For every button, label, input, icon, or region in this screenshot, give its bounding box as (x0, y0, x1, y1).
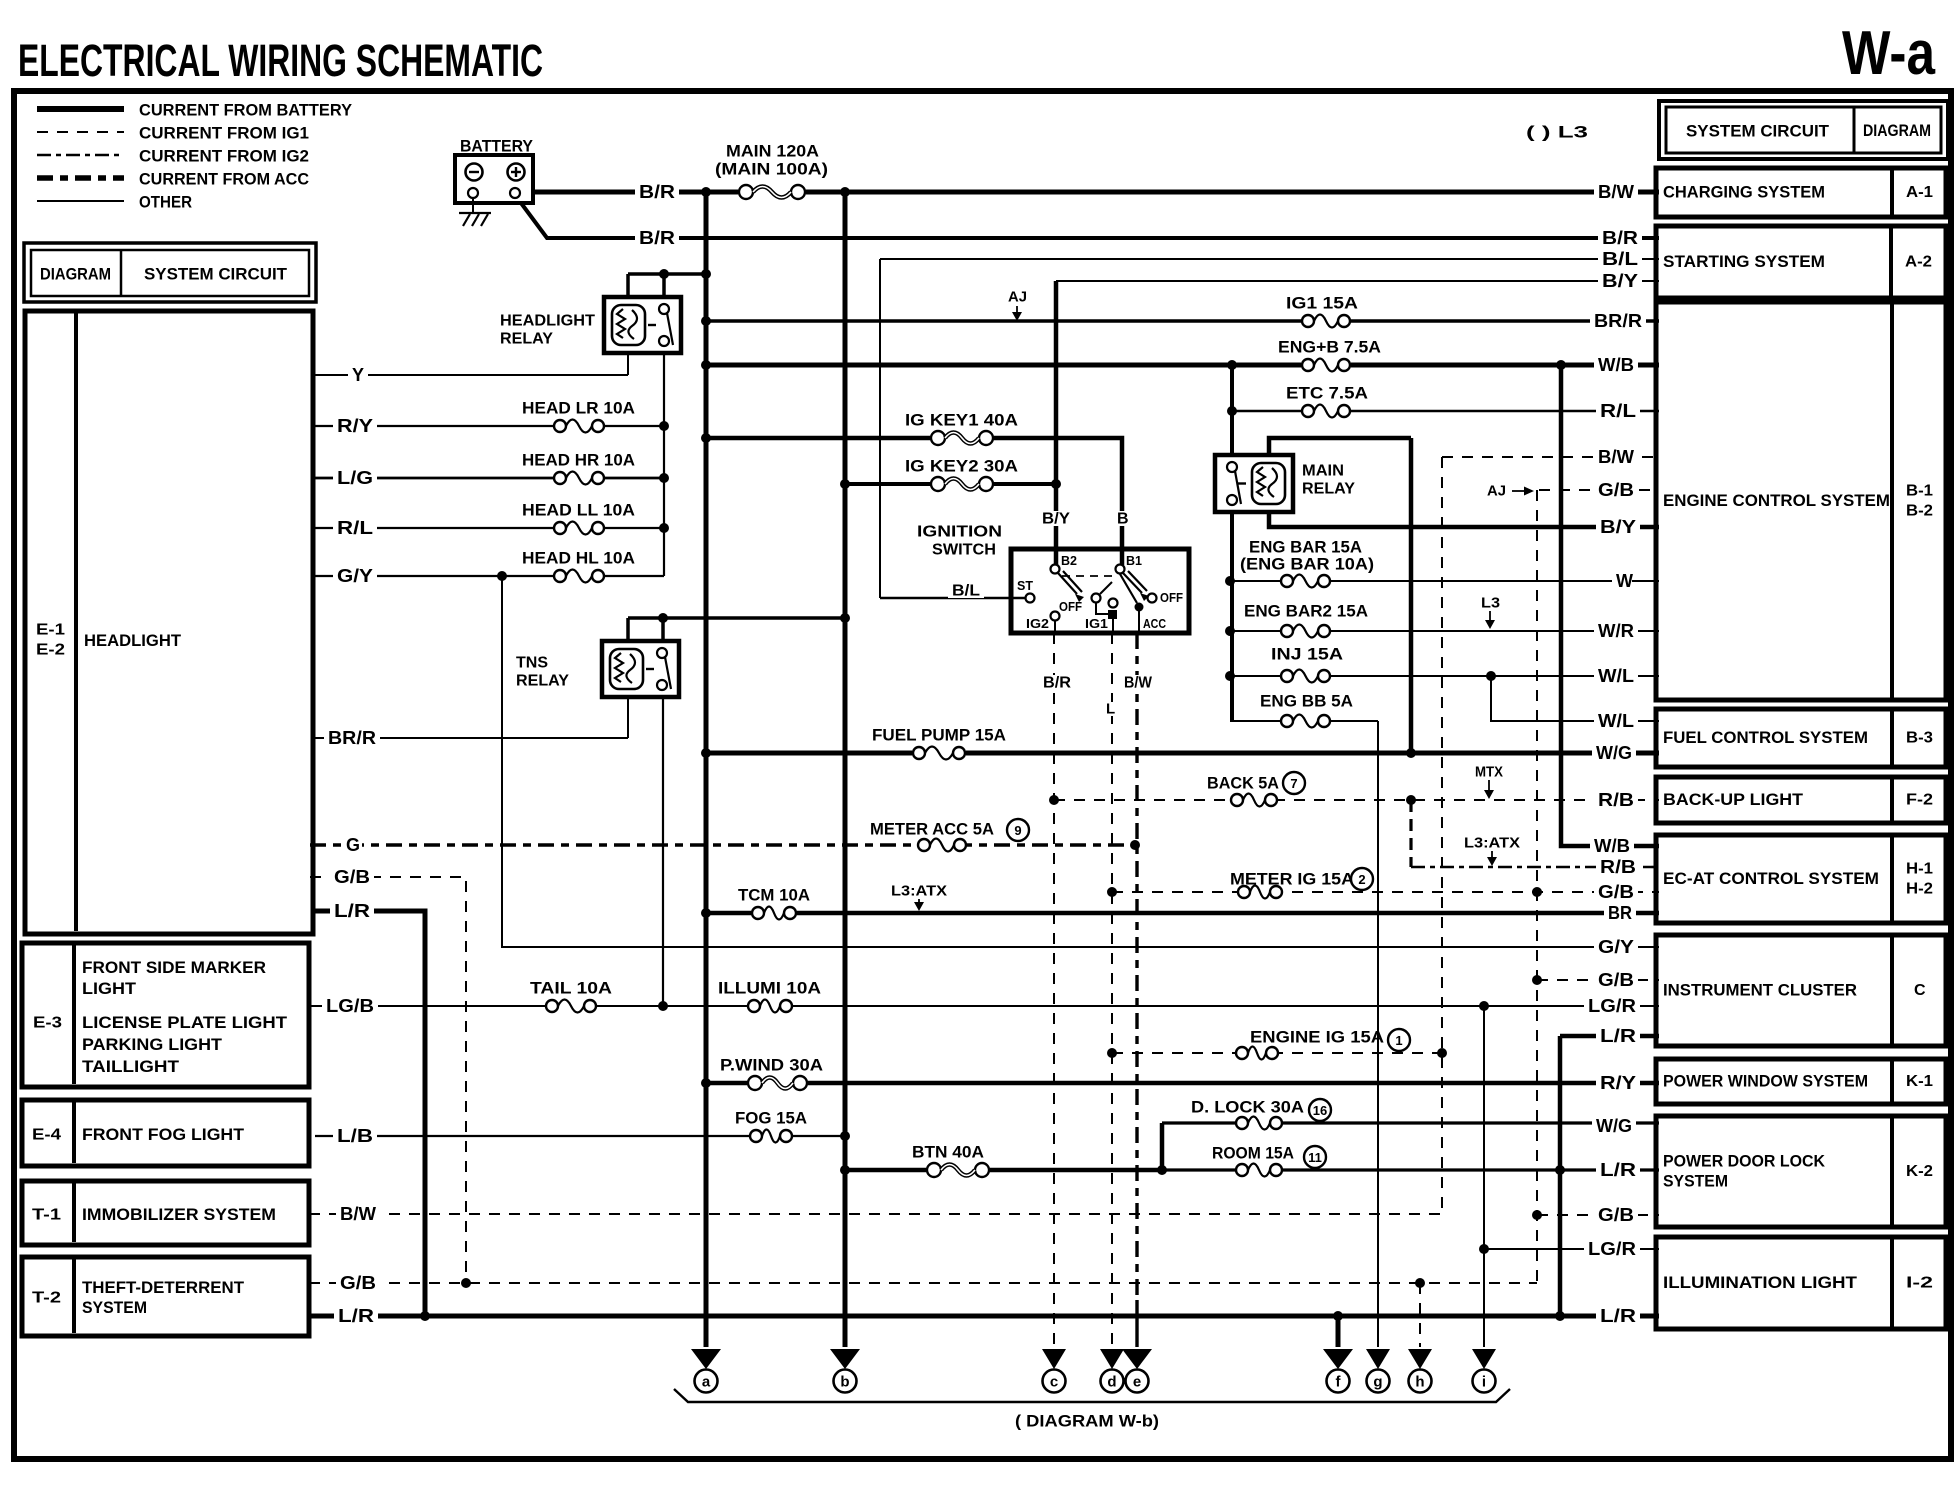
svg-text:B/R: B/R (1043, 675, 1071, 692)
component box T-2 THEFT-DETERRENT SYSTEM (22, 1257, 309, 1336)
wire L/R thick to instrument cluster from L/R bus (1560, 1034, 1659, 1039)
fuse HEAD HR 10A (553, 468, 605, 488)
svg-text:E-3: E-3 (33, 1015, 62, 1032)
svg-text:HEADLIGHT: HEADLIGHT (84, 632, 181, 650)
svg-text:IG1 15A: IG1 15A (1286, 294, 1358, 313)
fuse P.WIND 30A (747, 1072, 808, 1094)
svg-text:1: 1 (1395, 1033, 1402, 1048)
svg-text:a: a (702, 1374, 711, 1391)
wire B/L into ST terminal (880, 597, 1026, 600)
wire W/G via D.LOCK 30A to power door lock (1162, 1121, 1659, 1124)
svg-text:B-2: B-2 (1906, 503, 1933, 520)
system box BACK-UP LIGHT F-2 (1656, 777, 1946, 823)
system box EC-AT CONTROL SYSTEM H-1 H-2 (1656, 835, 1946, 923)
svg-text:L/R: L/R (338, 1306, 374, 1326)
wire vertical B/L drop to ST terminal (879, 259, 881, 598)
svg-text:HEAD HR 10A: HEAD HR 10A (522, 451, 635, 470)
svg-text:AJ: AJ (1487, 483, 1506, 500)
fuse ENG+B 7.5A (1301, 355, 1351, 375)
wire TNS relay switch riser (661, 618, 665, 643)
node R/B branch at main relay vertical (1406, 795, 1416, 805)
svg-text:IGNITION: IGNITION (917, 524, 1002, 541)
wire W/G fuel pump line to fuel control system (706, 751, 1659, 756)
node i-line tap at illumination feed (1479, 1001, 1489, 1011)
connector h to diagram W-b (1408, 1349, 1432, 1369)
fuse HEAD HL 10A (553, 566, 605, 586)
node L/R joins bottom L/R line (420, 1311, 430, 1321)
svg-text:SYSTEM CIRCUIT: SYSTEM CIRCUIT (144, 265, 288, 284)
node a-bus tap IG1 line (701, 316, 711, 326)
svg-text:ILLUMI 10A: ILLUMI 10A (718, 979, 821, 998)
node TNS switch output joins TAIL line (658, 1001, 668, 1011)
svg-text:B/W: B/W (1124, 675, 1153, 692)
wire R/B dashed via BACK 5A to back-up light (1054, 799, 1659, 801)
svg-text:BATTERY: BATTERY (460, 137, 534, 156)
wire headlight relay feed from a-bus (628, 272, 706, 276)
numbered circle 9 for METER ACC (1007, 819, 1029, 841)
svg-text:W/B: W/B (1598, 355, 1634, 375)
svg-text:ENG+B 7.5A: ENG+B 7.5A (1278, 338, 1381, 357)
node a-bus tap ENG+B line (701, 360, 711, 370)
wire W via ENG BAR 15A to engine control (1230, 580, 1659, 582)
connector c to diagram W-b (1042, 1349, 1066, 1369)
svg-text:TAILLIGHT: TAILLIGHT (82, 1058, 179, 1076)
svg-text:H-2: H-2 (1906, 881, 1933, 898)
numbered circle 2 for METER IG (1351, 868, 1373, 890)
wire TNS relay coil riser (626, 618, 630, 643)
wire G/B dashed stub power door lock (1537, 1214, 1659, 1216)
svg-text:B: B (1117, 511, 1129, 528)
wire Y headlight relay coil to headlight (627, 353, 629, 375)
svg-text:B/R: B/R (1602, 228, 1638, 248)
fuse TAIL 10A (545, 996, 597, 1016)
svg-text:L/R: L/R (1600, 1160, 1636, 1180)
wire G/B dashed instrument cluster stub (1537, 979, 1659, 981)
node b-bus tap FOG (840, 1131, 850, 1141)
svg-text:L/G: L/G (337, 468, 373, 488)
fuse ETC 7.5A (1301, 401, 1351, 421)
fuse ENG BAR2 15A (1280, 621, 1331, 641)
fuse IG1 15A (1301, 311, 1351, 331)
svg-text:CHARGING SYSTEM: CHARGING SYSTEM (1663, 184, 1825, 202)
svg-text:2: 2 (1358, 872, 1365, 887)
svg-text:K-2: K-2 (1906, 1163, 1933, 1180)
node main relay feed tap (1227, 360, 1237, 370)
wire B/R battery to MAIN fuse to B/W charging (net BATT) (533, 190, 1659, 195)
svg-text:A-1: A-1 (1906, 184, 1933, 201)
system box POWER WINDOW SYSTEM K-1 (1656, 1059, 1946, 1104)
component box E-3 front side marker / license / parking / taillight (22, 943, 309, 1087)
svg-text:G/B: G/B (340, 1273, 376, 1293)
wire G dash-dot headlight to METER ACC 5A (ACC net) (310, 843, 1135, 846)
wire vertical bus b (MAIN fused) (843, 192, 848, 1347)
svg-text:BR/R: BR/R (328, 728, 376, 748)
svg-text:ENG BAR2 15A: ENG BAR2 15A (1244, 602, 1368, 621)
fuse IG KEY2 30A (930, 473, 994, 495)
svg-text:E-1: E-1 (36, 622, 65, 639)
svg-text:L/R: L/R (1600, 1306, 1636, 1326)
svg-text:CURRENT FROM BATTERY: CURRENT FROM BATTERY (139, 101, 353, 120)
svg-text:ENGINE IG 15A: ENGINE IG 15A (1250, 1028, 1384, 1047)
wire W/B vertical from ENG+B to EC-AT (1561, 365, 1659, 846)
wire g thin vertical down to connector g (1377, 721, 1379, 1347)
node head LR output (659, 421, 669, 431)
svg-text:W/R: W/R (1598, 621, 1634, 641)
svg-text:IG KEY2 30A: IG KEY2 30A (905, 457, 1018, 476)
svg-text:B/W: B/W (1598, 447, 1634, 467)
svg-text:Y: Y (352, 365, 364, 385)
svg-text:W: W (1616, 571, 1633, 591)
wire B/W dashed immobilizer to engine control riser (309, 1213, 1440, 1215)
svg-text:R/L: R/L (337, 518, 373, 538)
wire BR via TCM 10A to EC-AT (706, 911, 1659, 916)
svg-text:BACK 5A: BACK 5A (1207, 774, 1279, 793)
node head LL output (659, 523, 669, 533)
svg-text:LG/R: LG/R (1588, 1239, 1636, 1259)
svg-text:B2: B2 (1061, 554, 1077, 568)
svg-text:R/L: R/L (1600, 401, 1636, 421)
svg-text:L/B: L/B (337, 1126, 373, 1146)
svg-text:G/B: G/B (334, 867, 370, 887)
wire L/R thick theft-deterrent bottom line (309, 1314, 1659, 1319)
system box POWER DOOR LOCK SYSTEM K-2 (1656, 1116, 1946, 1227)
wire BR/R headlight to TNS relay coil (315, 737, 628, 739)
svg-text:W/B: W/B (1594, 836, 1630, 856)
svg-text:G/B: G/B (1598, 1205, 1634, 1225)
svg-text:OTHER: OTHER (139, 193, 192, 212)
wire headlight relay switch output bus (663, 353, 665, 576)
wire TNS relay switch output down to TAIL line (662, 697, 664, 1006)
svg-text:( ) L3: ( ) L3 (1526, 123, 1588, 142)
terminal B1 (1116, 565, 1125, 574)
node a-bus tap P.WIND (701, 1078, 711, 1088)
svg-text:L3: L3 (1481, 595, 1500, 612)
svg-text:POWER DOOR LOCK: POWER DOOR LOCK (1663, 1153, 1825, 1171)
svg-text:(MAIN 100A): (MAIN 100A) (715, 160, 828, 179)
svg-text:11: 11 (1308, 1150, 1322, 1165)
fuse TCM 10A (751, 903, 797, 923)
legend line: current from ACC (37, 175, 124, 181)
svg-text:SYSTEM: SYSTEM (1663, 1173, 1728, 1191)
svg-text:LICENSE PLATE LIGHT: LICENSE PLATE LIGHT (82, 1014, 287, 1032)
node a-bus tap headlight relay (701, 269, 711, 279)
svg-text:BACK-UP LIGHT: BACK-UP LIGHT (1663, 791, 1803, 809)
wire G/B bus dashed vertical (1536, 490, 1538, 1283)
node L/R bus at ROOM output (1555, 1165, 1565, 1175)
svg-text:B/R: B/R (639, 182, 675, 202)
wire headlight relay coil riser (626, 274, 630, 299)
svg-text:THEFT-DETERRENT: THEFT-DETERRENT (82, 1279, 244, 1297)
wire B/W dashed vertical riser (1441, 457, 1443, 1214)
svg-text:B/Y: B/Y (1600, 517, 1636, 537)
svg-text:B/L: B/L (1602, 249, 1638, 269)
node ENG BAR2 tap (1225, 626, 1235, 636)
node BTN split to ROOM (1157, 1165, 1167, 1175)
svg-text:METER IG 15A: METER IG 15A (1230, 870, 1354, 889)
node ENGINE IG tap on d (1107, 1048, 1117, 1058)
terminal ST (1026, 594, 1035, 603)
svg-text:RELAY: RELAY (500, 331, 553, 348)
svg-text:B/L: B/L (952, 583, 980, 600)
fuse IG KEY1 40A (930, 427, 994, 449)
svg-text:B1: B1 (1126, 554, 1142, 568)
svg-text:B/Y: B/Y (1602, 271, 1638, 291)
wire L/B via FOG 15A from front fog light (315, 1135, 845, 1137)
terminal ACC (1135, 603, 1144, 612)
svg-text:W/L: W/L (1598, 711, 1634, 731)
node TNS switch riser join (658, 613, 668, 623)
wire main relay drop from ENG+B (1230, 365, 1234, 457)
node G/B bus tap door lock (1532, 1210, 1542, 1220)
svg-text:CURRENT FROM IG2: CURRENT FROM IG2 (139, 147, 309, 166)
svg-text:B/W: B/W (1598, 182, 1634, 202)
node b-bus tap BTN (840, 1165, 850, 1175)
switch arm from B2 (1058, 573, 1077, 594)
fuse METER ACC 5A (917, 835, 967, 855)
wire G/Y headlight via HEAD HL 10A fuse (315, 575, 664, 577)
wire LG/R illumination light from i-line (1484, 1248, 1659, 1250)
wire ETC 7.5A feed to R/L engine control (1232, 410, 1659, 413)
node a-bus tap fuel pump (701, 748, 711, 758)
svg-text:B-3: B-3 (1906, 730, 1933, 747)
node ETC tap on main relay drop (1227, 406, 1237, 416)
svg-text:R/B: R/B (1600, 857, 1636, 877)
wire d dashed L from IG1 down to connector d (1111, 633, 1113, 1347)
wire IG1 15A feed to BR/R engine control (706, 319, 1659, 323)
svg-text:LG/B: LG/B (326, 996, 374, 1016)
node G/Y branch to instrument cluster (497, 571, 507, 581)
wire L/R via ROOM 15A to power door lock (1162, 1168, 1659, 1171)
fuse D.LOCK 30A (1235, 1113, 1283, 1133)
svg-text:7: 7 (1290, 776, 1297, 791)
svg-text:SYSTEM: SYSTEM (82, 1299, 147, 1317)
svg-text:IG1: IG1 (1085, 617, 1108, 631)
svg-text:PARKING LIGHT: PARKING LIGHT (82, 1036, 222, 1054)
fuse ROOM 15A (1235, 1160, 1283, 1180)
svg-text:OFF: OFF (1160, 591, 1183, 605)
wire ENG BB 5A to connector g (1230, 720, 1378, 722)
fuse MAIN 120A (MAIN 100A) (738, 181, 806, 203)
mechanical link dashed between B2 and B1 (1062, 575, 1113, 577)
node battery bus a tap (701, 187, 711, 197)
wire L/R thick headlight down left riser (315, 911, 425, 1316)
system box FUEL CONTROL SYSTEM B-3 (1656, 709, 1946, 767)
svg-text:ETC 7.5A: ETC 7.5A (1286, 384, 1368, 403)
svg-text:ENG BB 5A: ENG BB 5A (1260, 692, 1353, 711)
svg-text:HEAD HL 10A: HEAD HL 10A (522, 549, 635, 568)
svg-text:TAIL 10A: TAIL 10A (530, 979, 612, 998)
svg-text:e: e (1133, 1374, 1141, 1391)
switch arm from B1 to ACC (1120, 574, 1137, 603)
svg-text:SWITCH: SWITCH (932, 542, 996, 559)
svg-text:(ENG BAR 10A): (ENG BAR 10A) (1240, 555, 1374, 574)
node i-line tap at LG/R illumination (1479, 1244, 1489, 1254)
svg-text:h: h (1415, 1374, 1424, 1391)
svg-text:BR: BR (1608, 903, 1632, 923)
terminal OFF right (1148, 594, 1157, 603)
svg-text:i: i (1482, 1374, 1486, 1391)
node a-bus tap TCM (701, 908, 711, 918)
node ENGINE IG joins B/W vertical (1437, 1048, 1447, 1058)
wire B/W dashed into engine control (1442, 456, 1659, 458)
wire R/L headlight via HEAD LL 10A fuse (315, 527, 664, 529)
wire IG KEY1 40A feed to ignition B1 (706, 438, 1122, 565)
svg-text:LG/R: LG/R (1588, 996, 1636, 1016)
node G/B bus junction at METER IG (1532, 887, 1542, 897)
svg-text:SYSTEM CIRCUIT: SYSTEM CIRCUIT (1686, 122, 1830, 141)
svg-text:b: b (840, 1374, 849, 1391)
legend line: current from battery (37, 106, 124, 112)
numbered circle 11 for ROOM (1304, 1146, 1326, 1168)
wire B/R battery lower to starting system (521, 203, 1659, 238)
wire LG/B - TAIL 10A - ILLUMI 10A - LG/R line (309, 1005, 1659, 1007)
svg-text:I-2: I-2 (1906, 1275, 1933, 1292)
wire R/B dash branch down to EC-AT R/B (1409, 800, 1412, 867)
wire ENG+B 7.5A feed to W/B engine control (706, 363, 1659, 368)
svg-text:HEADLIGHT: HEADLIGHT (500, 313, 595, 330)
node BACK 5A tap on c (1049, 795, 1059, 805)
wire main relay coil riser to top corner (1269, 438, 1411, 457)
svg-text:FRONT SIDE MARKER: FRONT SIDE MARKER (82, 959, 266, 977)
svg-text:POWER WINDOW SYSTEM: POWER WINDOW SYSTEM (1663, 1073, 1868, 1091)
system box ILLUMINATION LIGHT I-2 (1656, 1237, 1946, 1329)
node INJ tap (1225, 671, 1235, 681)
svg-text:G: G (346, 835, 360, 855)
svg-text:HEAD LL 10A: HEAD LL 10A (522, 501, 635, 520)
svg-text:W/G: W/G (1596, 1116, 1632, 1136)
node IG KEY2 output joins B/Y riser (1051, 479, 1061, 489)
svg-text:ACC: ACC (1143, 617, 1166, 631)
svg-text:CURRENT FROM ACC: CURRENT FROM ACC (139, 170, 309, 189)
svg-text:L: L (1106, 701, 1115, 718)
terminal B2 (1051, 565, 1060, 574)
wire vertical main relay to W/G junction (1409, 438, 1414, 753)
wire headlight relay switch riser (662, 274, 666, 299)
svg-text:H-1: H-1 (1906, 861, 1933, 878)
svg-text:STARTING SYSTEM: STARTING SYSTEM (1663, 253, 1825, 271)
svg-text:d: d (1107, 1374, 1116, 1391)
connector f to diagram W-b (1323, 1349, 1353, 1369)
legend line: current from IG1 (37, 131, 124, 133)
wire L/G headlight via HEAD HR 10A fuse (315, 477, 664, 480)
fuse FOG 15A (749, 1126, 793, 1146)
svg-text:TCM 10A: TCM 10A (738, 886, 810, 905)
svg-text:ST: ST (1017, 579, 1033, 593)
component box E-1 E-2 HEADLIGHT (25, 311, 313, 934)
component box E-4 FRONT FOG LIGHT (22, 1100, 309, 1166)
wire IG2 stub to box edge (1054, 620, 1056, 633)
relay headlight relay (604, 297, 681, 353)
connector b to diagram W-b (830, 1349, 860, 1369)
wire W/R via ENG BAR2 15A to engine control (1230, 630, 1659, 632)
system box CHARGING SYSTEM A-1 (1656, 168, 1946, 217)
svg-text:IG KEY1 40A: IG KEY1 40A (905, 411, 1018, 430)
node b-bus tap TNS relay (840, 613, 850, 623)
fuse ENG BB 5A (1280, 711, 1331, 731)
node W/B vertical tap (1556, 360, 1566, 370)
svg-text:W/L: W/L (1598, 666, 1634, 686)
svg-text:ENGINE CONTROL SYSTEM: ENGINE CONTROL SYSTEM (1663, 492, 1890, 510)
svg-text:FOG 15A: FOG 15A (735, 1109, 807, 1128)
connector d to diagram W-b (1100, 1349, 1124, 1369)
svg-text:C: C (1914, 982, 1926, 999)
svg-text:( DIAGRAM W-b): ( DIAGRAM W-b) (1015, 1412, 1159, 1431)
ignition switch box (1011, 549, 1189, 633)
svg-text:K-1: K-1 (1906, 1073, 1933, 1090)
fuse METER IG 15A (1237, 882, 1283, 902)
svg-text:g: g (1373, 1374, 1382, 1391)
node L/R bus at bottom L/R line (1555, 1311, 1565, 1321)
node W/L branch to fuel control (1486, 671, 1496, 681)
wire main relay coil output B/Y to engine control (1269, 512, 1659, 527)
wire W/L branch to fuel control system (1491, 676, 1659, 721)
svg-text:G/Y: G/Y (1598, 937, 1634, 957)
connector i to diagram W-b (1472, 1349, 1496, 1369)
numbered circle 16 for D.LOCK (1309, 1099, 1331, 1121)
svg-text:D. LOCK 30A: D. LOCK 30A (1191, 1098, 1304, 1117)
svg-text:DIAGRAM: DIAGRAM (1863, 122, 1931, 140)
svg-text:INJ 15A: INJ 15A (1271, 645, 1343, 664)
wire L/R bus vertical (1558, 1036, 1563, 1316)
wire R/Y headlight via HEAD LR 10A fuse (315, 425, 664, 427)
wire B/Y starting system from ignition B2 riser (1056, 280, 1659, 282)
wire IG KEY2 30A feed to B/Y riser (845, 482, 1056, 486)
wire G/B dashed theft-deterrent to G/B bus (309, 1282, 1537, 1284)
wire BTN 40A feed line (845, 1168, 1162, 1173)
system box INSTRUMENT CLUSTER C (1656, 935, 1946, 1046)
svg-text:RELAY: RELAY (1302, 481, 1355, 498)
svg-text:E-4: E-4 (32, 1127, 61, 1144)
terminal IG2 (1051, 612, 1060, 621)
svg-text:16: 16 (1313, 1103, 1327, 1118)
svg-text:FUEL PUMP 15A: FUEL PUMP 15A (872, 726, 1006, 745)
svg-text:G/B: G/B (1598, 970, 1634, 990)
node e-line ACC tap (1130, 840, 1140, 850)
svg-text:c: c (1050, 1374, 1058, 1391)
wire riser to D.LOCK fuse (1160, 1123, 1165, 1170)
svg-text:HEAD LR 10A: HEAD LR 10A (522, 399, 635, 418)
wire dashed via ENGINE IG 15A (1112, 1052, 1442, 1054)
fuse HEAD LL 10A (553, 518, 605, 538)
svg-text:B-1: B-1 (1906, 483, 1933, 500)
wire G/Y branch to instrument cluster (502, 576, 1659, 947)
numbered circle 7 for BACK fuse (1283, 772, 1305, 794)
wire ACC stub to box edge (1138, 611, 1140, 633)
svg-text:P.WIND 30A: P.WIND 30A (720, 1056, 823, 1075)
svg-text:ELECTRICAL WIRING SCHEMATIC: ELECTRICAL WIRING SCHEMATIC (18, 35, 543, 86)
svg-text:OFF: OFF (1059, 600, 1082, 614)
system box ENGINE CONTROL SYSTEM B-1 B-2 (1656, 302, 1946, 700)
svg-text:B/R: B/R (639, 228, 675, 248)
wire IG1 stub to box edge (1112, 619, 1114, 633)
wire R/Y via P.WIND 30A to power window (706, 1081, 1659, 1086)
svg-text:9: 9 (1014, 823, 1021, 838)
wire G/B dashed into engine control (AJ) (1539, 489, 1659, 491)
node head HR output (659, 473, 669, 483)
svg-text:FUEL CONTROL SYSTEM: FUEL CONTROL SYSTEM (1663, 729, 1868, 747)
svg-text:EC-AT CONTROL SYSTEM: EC-AT CONTROL SYSTEM (1663, 870, 1879, 888)
svg-text:RELAY: RELAY (516, 673, 569, 690)
legend line: current from IG2 (37, 154, 124, 157)
svg-text:AJ: AJ (1008, 289, 1027, 306)
numbered circle 1 for ENGINE IG (1388, 1029, 1410, 1051)
wire G/B dashed headlight to theft-deterrent G/B net (310, 877, 466, 1283)
svg-text:LIGHT: LIGHT (82, 980, 136, 998)
wire main relay switch output down fuse bank (1230, 512, 1234, 721)
wire h dashed down to connector h (1419, 1283, 1421, 1347)
node b-bus tap IG KEY2 (840, 479, 850, 489)
fuse BACK 5A (1230, 790, 1278, 810)
